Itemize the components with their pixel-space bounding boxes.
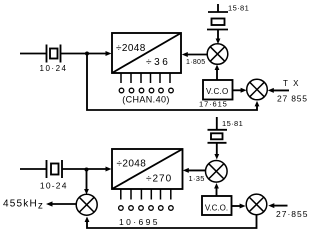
svg-text:÷36: ÷36 [146,57,170,68]
svg-text:V.C.O.: V.C.O. [205,204,228,213]
wire mixer M3 output to divider B2 with arrow [183,168,206,173]
crystal Y4 15.81 MHz (vertical, lower) [208,117,228,143]
crystal Y2 15.81 MHz (vertical) [207,4,228,30]
node junction at 10.24 bus (top) [85,52,89,56]
wire IF 10.695 from mixer M4 to mixer M5 with arrow [85,215,257,228]
svg-text:455kHz: 455kHz [3,199,44,212]
wire 27.855 RX input with arrow into M4 [268,203,287,208]
svg-text:1·35: 1·35 [189,174,205,183]
node junction at 10.24 bus (lower) [85,168,89,172]
svg-text:10·24: 10·24 [40,64,68,73]
mixer M2 (TX output) [247,79,268,100]
VCO U4 (lower) [202,196,232,215]
wire VCO U2 to mixer M1 with arrow [215,65,220,81]
svg-text:(CHAN.40): (CHAN.40) [122,94,170,104]
wire mixer M1 output to divider B1 with arrow [182,52,207,57]
svg-text:15·81: 15·81 [222,119,243,128]
wire Y1 to divider B1 with arrow [61,51,112,56]
svg-text:10-24: 10-24 [40,181,68,191]
svg-text:TX: TX [283,79,304,88]
wire VCO U2 to mixer M2 with arrow [233,88,247,93]
svg-text:17·615: 17·615 [199,100,228,109]
wire Y2 to mixer M1 with arrow [216,30,221,45]
svg-text:27 855: 27 855 [277,94,308,104]
wire junction to mixer M5 with arrow [84,170,89,195]
wire VCO U4 to mixer M3 with arrow [214,183,219,196]
svg-text:15·81: 15·81 [228,4,249,13]
wire input stub to crystal Y1 [20,53,47,55]
pins of divider U1 [121,73,170,83]
crystal Y1 10.24 MHz [47,45,61,63]
svg-text:1·805: 1·805 [186,59,205,66]
wire 10.24 bus from junction to mixer M2 with arrow [87,54,259,111]
svg-text:÷2048: ÷2048 [117,159,147,170]
svg-text:÷2048: ÷2048 [116,43,146,54]
svg-text:V.C.O: V.C.O [206,87,229,96]
svg-text:27·855: 27·855 [276,209,308,219]
wire VCO U4 to mixer M4 with arrow [232,204,246,209]
wire TX port with arrow into M2 [268,88,289,93]
divider U3 ÷2048/÷270 [112,149,183,189]
wire input stub to crystal Y3 [20,168,47,170]
mixer M1 [207,44,228,65]
svg-text:÷270: ÷270 [146,174,172,185]
VCO U2 (top) [203,80,233,100]
divider U1 ÷2048/÷36 [112,33,181,73]
crystal Y3 10.24 MHz (lower) [47,160,63,178]
wire Y3 to divider B2 with arrow [62,167,112,172]
svg-text:10·695: 10·695 [119,217,160,227]
mixer M4 (RX input) [246,194,267,215]
channel selector contacts (top) [119,88,173,93]
wire Y4 to mixer M3 with arrow [214,143,219,160]
wire 455 kHz output with arrow [46,201,76,206]
pins of divider U3 [121,189,171,200]
mixer M5 (455 kHz IF) [76,194,97,215]
channel selector contacts (lower) [119,206,174,211]
mixer M3 [206,161,228,183]
